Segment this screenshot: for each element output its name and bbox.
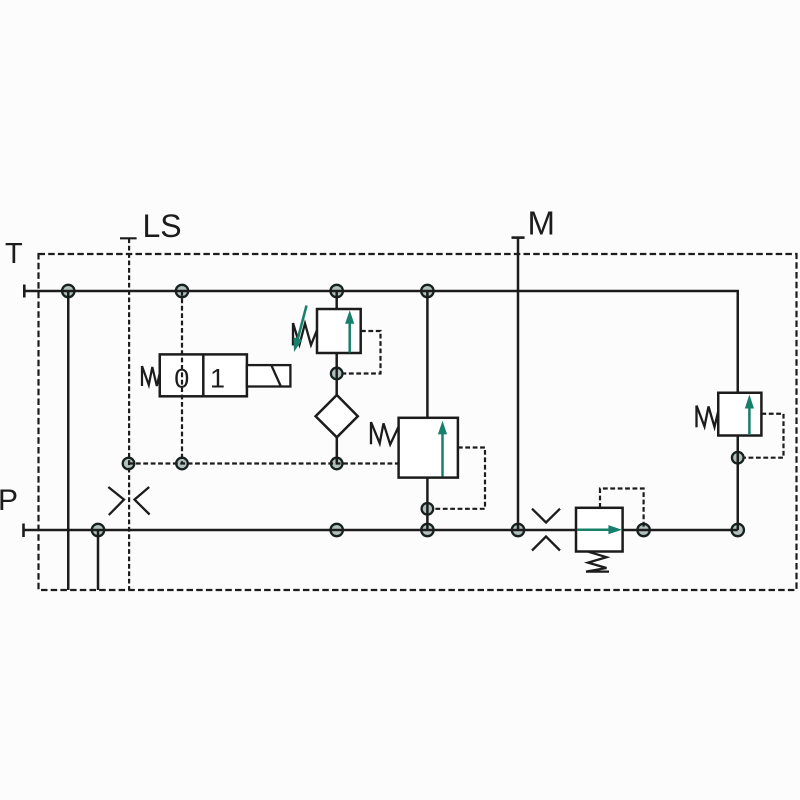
wire: filter F1 to pilot node [336,437,339,464]
wire: valve V1 inlet from T rail [335,291,338,309]
valve V3 flow arrow [577,525,622,534]
svg-text:T: T [5,238,23,270]
wire: T drain to block bottom [67,291,70,590]
valve V3 body [576,508,623,552]
valve V3 spring [586,552,609,572]
pilot line (dashed) valve V1 [343,331,381,374]
valve V1 flow arrow [345,310,354,352]
wire: M gauge line [517,238,520,530]
orifice (restrictor) on LS line [108,487,149,515]
pilot line (dashed) from LS node to valve V2 [129,462,399,464]
P port tick [22,524,25,538]
junction node below valve V1 [331,368,343,380]
valve V4 spring [697,406,719,428]
junction node LS pilot mid [176,458,188,470]
orifice (restrictor) on P rail [532,509,560,551]
junction node on P rail at feed [92,524,104,536]
junction node on T rail at valve V2 [421,285,433,297]
junction node below valve V2 [422,503,434,515]
valve V4 flow arrow [745,395,754,436]
valve V1 spring [293,323,317,346]
junction node on T rail at solenoid pilot [176,285,188,297]
pilot line (dashed) valve V3 [600,489,644,531]
wire: valve V1 outlet to filter F1 [335,353,338,396]
valve V1 body [317,309,361,353]
svg-text:1: 1 [210,363,225,393]
valve V1 adjustment arrow [294,306,307,353]
solenoid valve Y1 body [160,354,247,396]
junction node LS pilot left [123,458,135,470]
svg-text:LS: LS [143,208,182,244]
junction node on T rail at drain [62,285,74,297]
svg-text:0: 0 [174,363,189,393]
junction node on P rail below filter [331,524,343,536]
M port tick [512,236,525,239]
junction node below filter F1 [331,458,343,470]
pilot line (dashed) valve V2 [433,448,485,509]
wire: P feed from block bottom [97,530,100,590]
pilot line (dashed) valve V4 [744,414,784,458]
junction node on T rail at valve V1 [331,285,343,297]
solenoid coil Y1 [247,365,291,386]
LS port tick [120,237,137,239]
valve V4 body [718,393,761,436]
T port tick [23,285,26,298]
wire: T rail [24,291,737,393]
filter F1 (diamond) [316,395,358,437]
junction node on P rail at valve V2 [421,524,433,536]
svg-text:P: P [0,484,18,517]
wire: P rail [24,529,738,532]
pilot line (dashed) from T rail through solenoid valve [181,291,183,464]
manifold block boundary (dashed enclosure) [39,254,797,590]
valve V2 body [399,418,458,478]
wire: valve V2 outlet to P rail [426,478,429,530]
solenoid valve spring [142,366,160,386]
wire: valve V2 inlet from T rail [426,291,429,418]
junction node below valve V4 [732,452,744,464]
junction node on P rail at valve V3 pilot [637,524,649,536]
valve V2 flow arrow [438,421,447,477]
wire: LS pilot line (dashed vertical) [128,238,130,590]
wire: valve V4 outlet to P rail [737,436,740,531]
svg-text:M: M [528,205,556,242]
valve V2 spring [371,422,399,445]
junction node on P rail at valve V4 [732,524,744,536]
junction node on P rail at M line [512,524,524,536]
